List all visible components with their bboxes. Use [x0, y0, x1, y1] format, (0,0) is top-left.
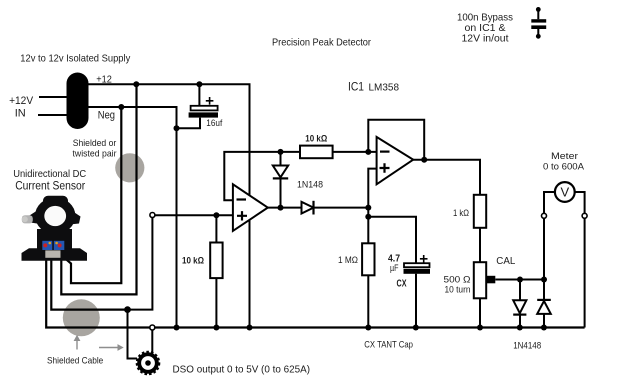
- svg-text:0 to 600A: 0 to 600A: [543, 162, 585, 173]
- svg-text:10 kΩ: 10 kΩ: [305, 134, 327, 145]
- svg-text:CX TANT Cap: CX TANT Cap: [364, 340, 413, 350]
- svg-text:+12V: +12V: [9, 95, 34, 107]
- svg-text:1 MΩ: 1 MΩ: [338, 255, 358, 266]
- svg-text:Shielded Cable: Shielded Cable: [47, 356, 103, 367]
- svg-text:1 kΩ: 1 kΩ: [453, 208, 469, 219]
- svg-text:IN: IN: [15, 108, 26, 120]
- svg-text:µF: µF: [390, 263, 399, 274]
- svg-text:1N148: 1N148: [297, 180, 323, 191]
- svg-text:CAL: CAL: [496, 255, 515, 267]
- svg-text:Neg: Neg: [98, 110, 115, 122]
- svg-text:16uf: 16uf: [206, 118, 222, 129]
- svg-text:1N4148: 1N4148: [513, 341, 541, 352]
- svg-text:IC1: IC1: [348, 82, 364, 94]
- svg-text:twisted pair: twisted pair: [73, 149, 117, 160]
- svg-text:Meter: Meter: [551, 151, 578, 162]
- svg-text:V: V: [560, 185, 569, 200]
- svg-text:10 kΩ: 10 kΩ: [182, 256, 204, 267]
- svg-text:Unidirectional DC: Unidirectional DC: [13, 168, 86, 180]
- svg-text:CX: CX: [397, 279, 407, 290]
- svg-text:12v to 12v Isolated Supply: 12v to 12v Isolated Supply: [20, 53, 131, 65]
- svg-text:Precision Peak Detector: Precision Peak Detector: [272, 37, 371, 49]
- svg-text:+12: +12: [96, 75, 112, 86]
- svg-text:10 turn: 10 turn: [445, 285, 471, 296]
- svg-text:LM358: LM358: [369, 82, 400, 94]
- svg-text:Current Sensor: Current Sensor: [15, 181, 85, 193]
- svg-text:Shielded or: Shielded or: [73, 138, 117, 149]
- svg-text:DSO output 0 to 5V (0 to 625: DSO output 0 to 5V (0 to 625A): [173, 364, 311, 376]
- svg-text:12V in/out: 12V in/out: [462, 33, 509, 45]
